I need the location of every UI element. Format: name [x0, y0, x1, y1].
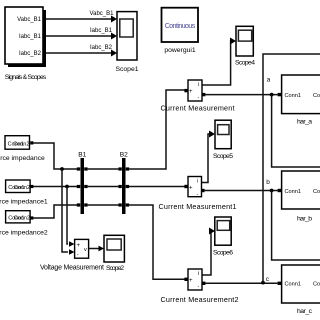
wire Iabc_B1 to Scope1 — [46, 28, 117, 40]
block har_b — [282, 171, 320, 223]
block har_c — [282, 265, 320, 315]
scope Scope2 — [104, 235, 124, 272]
block source impedance1 — [0, 180, 48, 206]
scope Scope1 — [115, 12, 138, 73]
wire tap phase b to Voltage Measurement plus — [67, 187, 75, 247]
wire CM2 i-output to Scope6 — [202, 228, 215, 276]
svg-text:i: i — [198, 271, 199, 277]
port B2 left c — [118, 203, 121, 206]
wire Current Measurement1 to har_b — [205, 190, 278, 192]
svg-text:+: + — [189, 186, 193, 192]
wire Voltage Measurement to Scope2 — [89, 246, 104, 252]
svg-text:Voltage Measurement: Voltage Measurement — [40, 264, 104, 271]
wire source impedance1 to B1 phase b — [33, 186, 77, 188]
scope Scope5 — [213, 120, 233, 160]
svg-text:Conn1: Conn1 — [285, 282, 301, 288]
port CM2 minus output — [202, 282, 205, 285]
port B1 left a — [77, 167, 80, 170]
block source impedance2 — [0, 211, 48, 237]
svg-text:Conn2: Conn2 — [14, 185, 30, 191]
bus bar B2 — [120, 152, 128, 215]
svg-text:B2: B2 — [120, 152, 128, 159]
svg-text:Scope6: Scope6 — [213, 250, 233, 257]
port B2 left a — [118, 167, 121, 170]
wire source impedance to B1 phase a — [33, 143, 77, 169]
wire B2 to Current Measurement phase a — [129, 90, 185, 169]
port B2 right a — [126, 167, 129, 170]
svg-text:-: - — [198, 284, 200, 290]
port B1 right a — [84, 167, 87, 170]
scope Scope6 — [213, 217, 233, 257]
block source impedance — [0, 136, 45, 162]
svg-text:Continuous: Continuous — [165, 23, 196, 30]
block Voltage Measurement — [40, 239, 104, 271]
port B2 left b — [118, 185, 121, 188]
wire CM1 i-output to Scope5 — [201, 131, 215, 183]
port B1 left c — [77, 203, 80, 206]
junction phase a tap — [60, 167, 64, 171]
junction phase c return — [261, 281, 265, 285]
wire CM i-output to Scope4 — [202, 38, 236, 86]
bus bar B1 — [78, 152, 86, 215]
port B2 right b — [126, 185, 129, 188]
svg-text:Conn2: Conn2 — [313, 282, 320, 288]
svg-text:-: - — [198, 95, 200, 101]
wire Iabc_B2 to Scope1 — [46, 45, 117, 57]
svg-text:-: - — [77, 252, 79, 258]
wire tap phase a to Voltage Measurement minus — [62, 169, 75, 255]
svg-text:Conn2: Conn2 — [14, 216, 30, 222]
port CM plus input — [184, 89, 187, 92]
svg-text:i: i — [198, 82, 199, 88]
svg-text:Iabc_B1: Iabc_B1 — [19, 34, 42, 40]
svg-text:source impedance: source impedance — [0, 155, 45, 162]
block U1 Current Measurement — [161, 80, 235, 113]
svg-text:Conn2: Conn2 — [313, 189, 320, 195]
port CM2 plus input — [184, 278, 187, 281]
port B1 left b — [77, 185, 80, 188]
port CM1 minus output — [201, 189, 204, 192]
svg-text:powergui1: powergui1 — [164, 47, 196, 54]
block U2 Current Measurement1 — [159, 177, 237, 212]
port B1 right c — [84, 203, 87, 206]
svg-text:v: v — [84, 247, 87, 253]
svg-text:Signals & Scopes: Signals & Scopes — [5, 74, 47, 81]
scope Scope4 — [235, 26, 255, 66]
port B1 right b — [84, 185, 87, 188]
port B2 right c — [126, 203, 129, 206]
port source impedance2 Conn2 — [30, 216, 33, 219]
svg-text:Conn1: Conn1 — [285, 93, 301, 99]
svg-text:Scope1: Scope1 — [115, 66, 138, 73]
junction phase a return — [270, 93, 274, 97]
block har_a — [282, 75, 320, 126]
svg-text:har_b: har_b — [297, 216, 312, 223]
block Signals & Scopes shadow — [8, 10, 46, 67]
port har_a Conn1 — [278, 93, 282, 96]
svg-text:Current Measurement: Current Measurement — [161, 104, 235, 113]
wire B1 to B2 phase c — [88, 204, 119, 206]
wire Vabc_B1 to Scope1 — [46, 11, 117, 23]
svg-text:b: b — [266, 179, 270, 186]
wire B1 to B2 phase a — [88, 168, 119, 170]
svg-text:+: + — [189, 278, 193, 284]
svg-text:-: - — [197, 192, 199, 198]
svg-text:Conn2: Conn2 — [313, 93, 320, 99]
svg-text:Conn1: Conn1 — [285, 189, 301, 195]
wire Current Measurement2 to har_c — [205, 282, 277, 284]
svg-text:Iabc_B2: Iabc_B2 — [90, 45, 113, 51]
svg-text:a: a — [267, 77, 271, 84]
wire B1 to B2 phase b — [88, 186, 119, 188]
svg-text:Conn2: Conn2 — [13, 141, 29, 147]
svg-text:Vabc_B1: Vabc_B1 — [90, 11, 115, 17]
port CM minus output — [202, 93, 205, 96]
wire phase c return loop — [263, 54, 320, 283]
wire B2 to Current Measurement2 phase c — [129, 205, 185, 279]
wire source impedance2 to B1 phase c — [33, 205, 77, 218]
svg-text:Current Measurement1: Current Measurement1 — [159, 202, 237, 211]
svg-text:har_a: har_a — [297, 119, 312, 126]
svg-text:i: i — [197, 179, 198, 185]
wire phase b return loop — [272, 191, 320, 261]
port har_c Conn1 — [278, 282, 282, 285]
svg-text:Vabc_B1: Vabc_B1 — [17, 17, 42, 23]
svg-text:source impedance2: source impedance2 — [0, 230, 48, 237]
port CM1 plus input — [184, 185, 187, 188]
block powergui1 Continuous — [162, 8, 199, 54]
svg-text:+: + — [189, 89, 193, 95]
junction phase b tap — [65, 185, 69, 189]
svg-text:Current Measurement2: Current Measurement2 — [161, 295, 239, 304]
svg-text:Scope2: Scope2 — [106, 265, 124, 272]
wire phase a return loop — [272, 95, 320, 167]
port source impedance1 Conn2 — [30, 185, 33, 188]
svg-text:+: + — [77, 243, 81, 249]
svg-text:Scope5: Scope5 — [213, 153, 233, 160]
port source impedance Conn2 — [30, 141, 33, 144]
svg-text:Iabc_B2: Iabc_B2 — [19, 51, 42, 57]
wire Current Measurement to har_a — [205, 94, 277, 96]
svg-text:Iabc_B1: Iabc_B1 — [90, 28, 113, 34]
junction phase b return — [270, 189, 274, 193]
svg-text:B1: B1 — [78, 152, 86, 159]
port har_b Conn1 — [278, 189, 282, 192]
svg-text:har_c: har_c — [297, 308, 313, 315]
svg-text:Scope4: Scope4 — [235, 60, 255, 67]
block Signals & Scopes — [5, 7, 47, 81]
wire B2 to Current Measurement1 phase b — [129, 186, 185, 188]
block U3 Current Measurement2 — [161, 269, 239, 304]
svg-text:source impedance1: source impedance1 — [0, 199, 48, 206]
